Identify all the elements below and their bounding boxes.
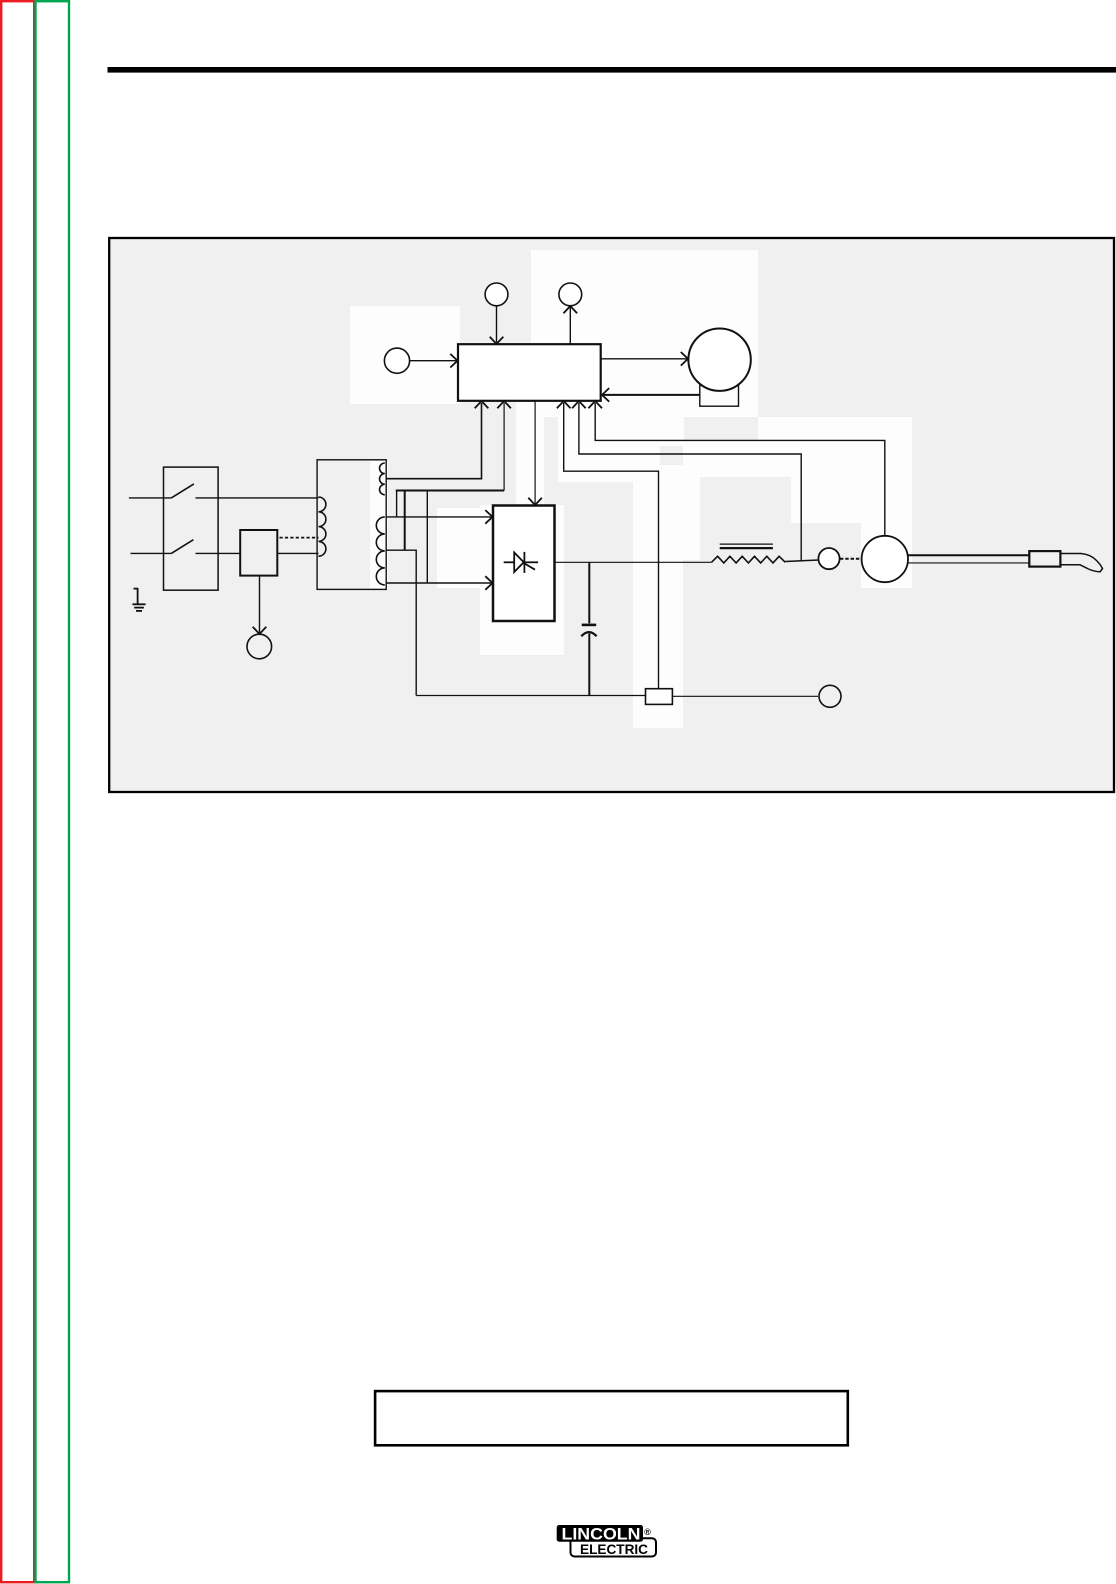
main secondary winding [376, 517, 385, 585]
arrowhead aux into control box [475, 401, 489, 408]
arrowhead into control box top [490, 337, 504, 344]
label patch: band left part [685, 440, 758, 477]
output wire rectifier to small terminal [555, 561, 712, 563]
motor drive wire control box to feed motor [595, 403, 885, 536]
wire feed motor circle [862, 536, 908, 582]
feedback wire output to control box [579, 403, 801, 561]
tap link to lower input [426, 491, 428, 584]
primary winding [319, 497, 326, 556]
tap link thick vertical [404, 491, 406, 551]
wire from control box up [569, 307, 571, 345]
lincoln logo block [557, 1525, 656, 1557]
dashed link to feed motor [840, 558, 862, 560]
gun handle [1029, 551, 1060, 567]
dashed link breaker to winding [280, 537, 319, 539]
power switch box S1 [164, 467, 219, 590]
label patch: wire feed band [758, 417, 912, 477]
svg-text:LINCOLN: LINCOLN [562, 1525, 641, 1543]
wire fan motor to control box [602, 394, 700, 396]
label patch: shunt column [633, 465, 683, 728]
switch blade bottom [171, 540, 193, 554]
shunt R1 [646, 689, 673, 705]
label patch: rectifier left [437, 508, 480, 588]
capacitor C1 lead top [588, 562, 590, 623]
arrowhead into control box left [450, 354, 457, 368]
wire choke to gun terminal [785, 560, 818, 562]
label patch: voltage control [350, 306, 460, 404]
wire shunt to work terminal [672, 695, 818, 697]
gun cable lower [908, 562, 1029, 564]
choke L1 winding [712, 556, 786, 563]
capacitor plate [582, 624, 597, 627]
results box [375, 1391, 848, 1445]
arrowhead into rectifier bottom input [485, 576, 492, 590]
choke core line thick [720, 547, 773, 549]
label patch: feeder band lower [791, 477, 912, 523]
label patch: transformer strip [370, 461, 388, 589]
fan terminal circle [247, 634, 272, 659]
arrowhead into rectifier top input [485, 510, 492, 524]
fan motor rect base [700, 385, 739, 406]
arrowhead into fan motor [681, 352, 688, 366]
wire bus riser to control box [503, 403, 505, 491]
fan motor circle [688, 329, 750, 391]
ground symbol [132, 588, 145, 611]
wire secondary tap down [386, 550, 417, 695]
svg-text:®: ® [644, 1527, 651, 1537]
header rule [108, 67, 1116, 73]
svg-text:ELECTRIC: ELECTRIC [580, 1542, 648, 1557]
wire secondary to rectifier bottom input [386, 582, 492, 584]
label patch: below control box right [558, 401, 660, 482]
SCR symbol [504, 552, 538, 573]
wire line1 to transformer [196, 497, 319, 499]
label patch: below control box left [516, 401, 544, 508]
label patch: shunt sliver [683, 440, 700, 560]
white label patches (text removed in scan) [350, 250, 912, 728]
gate drive wire from control box [534, 401, 536, 504]
wire line2 to breaker [196, 552, 241, 554]
green margin bar [36, 1, 70, 1582]
wire voltage control to box [410, 360, 457, 362]
arrowhead output feedback into box [572, 401, 586, 408]
diagram frame [109, 238, 1114, 792]
tap link vertical [396, 491, 398, 517]
aux secondary winding [380, 463, 385, 495]
arrowhead into rectifier top [528, 498, 542, 505]
feedback wire shunt to control box [564, 403, 659, 689]
control box U1 [458, 344, 601, 401]
wire aux bus horizontal [396, 490, 504, 492]
wire breaker to transformer [277, 552, 318, 554]
wire aux tap to control box [386, 403, 481, 479]
wire line2 in [131, 552, 172, 554]
transformer T1 core [317, 460, 386, 590]
arrowhead into terminal circle [253, 627, 267, 634]
red margin bar [1, 1, 34, 1582]
label patch: band notch [660, 417, 684, 446]
label patch: feeder column [861, 477, 912, 588]
wire breaker to fan terminal [259, 576, 261, 633]
label patch: top center [531, 250, 758, 417]
voltage control circle [384, 348, 409, 373]
gun cable upper [908, 554, 1029, 556]
circuit breaker CB1 [240, 530, 277, 576]
switch blade top [171, 484, 194, 498]
indicator circle top [559, 283, 582, 306]
gas solenoid circle [485, 283, 508, 306]
label patch: rectifier [480, 505, 564, 655]
wire to gas solenoid [496, 306, 498, 343]
work terminal circle [819, 685, 841, 707]
arrowhead bus into control box [497, 401, 511, 408]
arrowhead into indicator circle [564, 306, 578, 313]
arrowhead shunt feedback into box [557, 401, 571, 408]
gun trigger terminal circle [818, 548, 839, 569]
negative bus wire [416, 695, 645, 697]
wire control box to fan motor [601, 358, 688, 360]
capacitor lead bottom [588, 634, 590, 696]
arrowhead motor drive into box [588, 401, 602, 408]
SCR rectifier box [493, 506, 555, 622]
gun nozzle top [1060, 554, 1102, 572]
choke core line thin [720, 543, 773, 545]
wire secondary to rectifier top input [386, 516, 491, 518]
arrowhead into control box right [602, 388, 609, 402]
wire line1 in [129, 497, 171, 499]
capacitor curved plate [581, 632, 596, 636]
